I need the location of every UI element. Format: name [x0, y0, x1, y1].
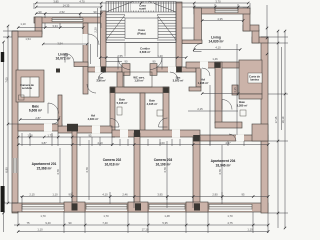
right horiz wall under living	[186, 62, 239, 68]
bottom wall	[12, 203, 268, 212]
stair right wall	[176, 2, 182, 72]
right vert wall	[215, 62, 222, 123]
svg-text:5,045 m²: 5,045 m²	[117, 101, 128, 105]
svg-text:Casa: Casa	[138, 28, 145, 32]
svg-text:3,96 m²: 3,96 m²	[96, 79, 105, 83]
svg-text:17,10: 17,10	[142, 228, 149, 232]
svg-text:90: 90	[153, 60, 156, 64]
svg-text:Hol: Hol	[201, 78, 206, 82]
svg-text:Coridor: Coridor	[140, 47, 150, 51]
svg-text:2,52: 2,52	[59, 10, 65, 14]
svg-text:1,946 m²: 1,946 m²	[198, 81, 209, 85]
svg-text:5,35: 5,35	[162, 221, 168, 225]
svg-text:2,15: 2,15	[29, 193, 35, 197]
right vert wall 2	[232, 85, 238, 95]
svg-text:Baie: Baie	[119, 98, 125, 102]
svg-text:1,48: 1,48	[164, 214, 170, 218]
top-right band A	[194, 8, 250, 14]
svg-text:7,40: 7,40	[102, 221, 108, 225]
svg-text:Baie: Baie	[149, 99, 155, 103]
svg-text:75: 75	[27, 221, 30, 225]
left edge black marks	[1, 52, 5, 212]
svg-text:14,35: 14,35	[63, 3, 70, 7]
svg-text:1,70: 1,70	[227, 214, 233, 218]
svg-text:3,87: 3,87	[41, 141, 47, 145]
svg-text:4,75: 4,75	[227, 221, 233, 225]
svg-text:95: 95	[242, 193, 245, 197]
svg-text:1,10: 1,10	[20, 22, 26, 26]
baie|hol wall left	[58, 95, 62, 126]
svg-text:scarii: scarii	[139, 7, 146, 11]
svg-text:1,70: 1,70	[103, 214, 109, 218]
svg-text:16,108 m²: 16,108 m²	[155, 163, 171, 167]
svg-text:3,95: 3,95	[157, 193, 163, 197]
left wall	[12, 31, 18, 213]
svg-text:4,10: 4,10	[102, 193, 108, 197]
right corner block	[252, 124, 268, 141]
svg-text:1,10: 1,10	[247, 228, 253, 232]
svg-text:4,97: 4,97	[225, 141, 231, 145]
door gaps in walls	[44, 34, 244, 141]
door arcs	[48, 34, 236, 141]
svg-text:4,78: 4,78	[56, 169, 60, 175]
pier base 3	[186, 202, 208, 212]
svg-text:3,34: 3,34	[52, 24, 58, 28]
windows (white gaps with lines)	[13, 9, 252, 211]
svg-text:6,90: 6,90	[4, 167, 8, 173]
casa scarii label box	[131, 3, 154, 11]
svg-text:14,630 m²: 14,630 m²	[208, 40, 224, 44]
svg-text:1,46: 1,46	[212, 57, 218, 61]
sas vertical	[117, 72, 123, 92]
svg-text:2,55: 2,55	[117, 54, 123, 58]
corridor south wall	[88, 67, 122, 72]
wall under light well	[239, 94, 262, 99]
svg-text:16,018 m²: 16,018 m²	[104, 163, 120, 167]
svg-text:1,40: 1,40	[157, 54, 163, 58]
svg-text:4,78: 4,78	[163, 167, 167, 173]
svg-text:1,50 m²: 1,50 m²	[134, 79, 143, 83]
svg-text:4,345 m²: 4,345 m²	[147, 102, 158, 106]
svg-text:16,072 m²: 16,072 m²	[55, 57, 71, 61]
svg-text:4,35: 4,35	[217, 17, 223, 21]
svg-text:2,90: 2,90	[212, 193, 218, 197]
svg-text:2,46: 2,46	[122, 193, 128, 197]
svg-text:Apartament 201: Apartament 201	[32, 162, 57, 166]
right connector L	[194, 8, 202, 41]
svg-text:4,10: 4,10	[97, 141, 103, 145]
separator mid-left	[58, 126, 112, 133]
bath mid wall	[140, 93, 145, 131]
separator mid	[112, 130, 200, 137]
svg-text:90: 90	[94, 10, 97, 14]
svg-text:6,608 m²: 6,608 m²	[29, 109, 43, 113]
svg-text:15,368 m²: 15,368 m²	[36, 167, 52, 171]
svg-text:Camera 202: Camera 202	[103, 158, 122, 162]
left step band	[12, 31, 42, 37]
svg-text:4,034 m²: 4,034 m²	[88, 117, 99, 121]
svg-text:1,10: 1,10	[37, 228, 43, 232]
svg-text:2,15: 2,15	[197, 107, 203, 111]
svg-text:3,85: 3,85	[53, 0, 59, 4]
wc serv box	[124, 72, 152, 87]
svg-text:3,380 m²: 3,380 m²	[237, 104, 248, 108]
svg-text:90: 90	[69, 221, 72, 225]
service shaft inner	[21, 77, 39, 97]
bath right wall	[163, 87, 169, 131]
svg-text:7,05: 7,05	[4, 77, 8, 83]
svg-text:4,78: 4,78	[85, 167, 89, 173]
svg-text:serviciu: serviciu	[22, 86, 33, 90]
top-left band	[34, 17, 102, 23]
svg-text:17,35: 17,35	[274, 116, 278, 123]
svg-text:1,54: 1,54	[25, 37, 31, 41]
right wall	[261, 37, 268, 213]
svg-text:90: 90	[69, 193, 72, 197]
right seg B	[243, 8, 250, 31]
bath top wall	[110, 87, 169, 93]
svg-text:9,40: 9,40	[45, 221, 51, 225]
svg-text:18,10: 18,10	[281, 116, 285, 123]
curte de lumina label box	[248, 73, 262, 83]
svg-text:4,78: 4,78	[218, 169, 222, 175]
left connector	[35, 17, 42, 34]
stub below connector	[182, 40, 202, 44]
bath left wall	[110, 87, 115, 131]
svg-text:1,10: 1,10	[52, 193, 58, 197]
svg-text:18,946 m²: 18,946 m²	[215, 164, 231, 168]
wall fills	[12, 2, 268, 213]
svg-text:2,87: 2,87	[35, 116, 41, 120]
svg-text:1,13: 1,13	[27, 133, 33, 137]
svg-text:1,70: 1,70	[40, 214, 46, 218]
svg-text:Camera 203: Camera 203	[154, 158, 173, 162]
svg-text:3,70: 3,70	[215, 0, 221, 4]
extension lines	[34, 3, 250, 18]
svg-text:4,10: 4,10	[215, 46, 221, 50]
separator left	[18, 124, 62, 131]
pier base 1	[64, 202, 85, 212]
svg-text:1,73: 1,73	[47, 133, 53, 137]
pier base 2	[128, 202, 148, 212]
stairs	[106, 2, 176, 57]
svg-text:4,70: 4,70	[79, 0, 85, 4]
separator right	[200, 135, 268, 141]
svg-text:95: 95	[89, 133, 92, 137]
room labels	[20, 4, 260, 171]
svg-text:3,54: 3,54	[57, 41, 63, 45]
stair left wall	[101, 11, 107, 72]
right band E	[252, 37, 268, 43]
structural columns (dark)	[56, 62, 221, 210]
svg-text:4,35: 4,35	[233, 87, 237, 93]
svg-text:Baie: Baie	[239, 100, 245, 104]
svg-text:6,608 m²: 6,608 m²	[140, 50, 151, 54]
svg-text:Apartament 204: Apartament 204	[211, 159, 236, 163]
living|sas wall	[83, 23, 88, 94]
right seg D	[252, 30, 259, 43]
light well	[239, 60, 262, 94]
partition 203|204	[193, 137, 200, 204]
svg-text:lumina: lumina	[250, 78, 259, 82]
svg-text:(Piata): (Piata)	[137, 32, 145, 36]
svg-text:4,00: 4,00	[159, 141, 165, 145]
service shaft frame	[16, 70, 44, 102]
partition 202|203	[134, 133, 140, 204]
svg-text:90: 90	[39, 10, 42, 14]
living south stub	[74, 62, 88, 67]
right band C	[243, 25, 259, 31]
svg-text:3,053 m²: 3,053 m²	[173, 79, 184, 83]
svg-text:90: 90	[125, 60, 128, 64]
partition 201|202	[72, 130, 77, 204]
svg-text:Hol: Hol	[91, 114, 96, 118]
svg-text:2,20: 2,20	[94, 27, 98, 33]
